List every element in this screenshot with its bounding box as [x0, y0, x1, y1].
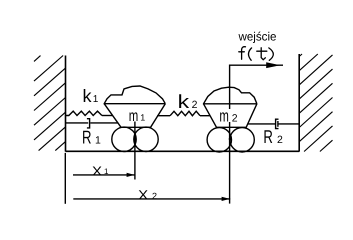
mass M2 centerline lower [229, 122, 231, 204]
damper R1 cylinder [87, 119, 90, 128]
svg-text:2: 2 [277, 134, 283, 146]
mass M2 wheel right [230, 128, 254, 152]
damper R1 rod from wall [66, 122, 89, 124]
damper R1 rod to mass M1 [90, 122, 118, 124]
right wall hatching [299, 54, 332, 152]
right wall [298, 54, 300, 152]
mass M1 trapezoid [104, 104, 165, 128]
dimension x1 line [73, 174, 135, 176]
svg-text:k: k [178, 92, 190, 113]
svg-text:2: 2 [152, 191, 157, 201]
mass M1 wheel right [134, 127, 158, 151]
input force arrowhead [266, 62, 280, 68]
svg-text:m: m [219, 106, 229, 125]
svg-text:k: k [83, 86, 93, 106]
mass M1 top line [104, 103, 166, 105]
mass M2 top line [203, 103, 257, 105]
input force arrow line [230, 65, 283, 87]
spring K1 [66, 111, 102, 115]
mass M1 centerline [134, 122, 136, 180]
dimension x1 arrowhead [127, 173, 135, 177]
svg-text:wejście: wejście [238, 30, 277, 44]
left extension line [64, 153, 66, 204]
mass M1 blob [104, 86, 165, 104]
damper R2 rod from mass M2 [248, 123, 276, 125]
svg-text:X: X [138, 187, 148, 202]
mass M2 center dot [229, 138, 232, 141]
mass M1 wheel left [112, 127, 136, 151]
svg-text:1: 1 [95, 134, 101, 146]
mass M2 wheel left [207, 128, 231, 152]
wire spring K2 to mass M2 [200, 115, 210, 117]
svg-text:2: 2 [192, 99, 198, 111]
mass M1 center dot [134, 137, 137, 140]
ground [66, 150, 300, 152]
damper R2 cylinder [276, 119, 279, 128]
damper R2 rod to wall [278, 123, 299, 125]
mass M2 trapezoid [204, 104, 257, 128]
svg-text:m: m [129, 108, 139, 125]
svg-text:X: X [92, 164, 102, 179]
svg-text:1: 1 [104, 167, 109, 176]
left wall hatching [34, 56, 66, 151]
dimension x2 line [73, 198, 230, 200]
dimension x2 arrowhead [222, 197, 230, 201]
mass M2 centerline upper [229, 87, 231, 109]
svg-text:R: R [263, 126, 273, 147]
left wall [65, 56, 67, 152]
spring K2 wire from mass M1 [157, 115, 170, 117]
svg-text:1: 1 [93, 94, 99, 105]
svg-text:2: 2 [232, 112, 238, 124]
damper R2 piston [277, 121, 279, 127]
label f(t) [239, 47, 274, 61]
svg-text:1: 1 [140, 113, 145, 123]
svg-text:R: R [82, 126, 92, 147]
wire spring K1 to mass M1 [102, 115, 113, 117]
spring K2 [170, 111, 200, 116]
mass M2 blob [204, 87, 257, 104]
